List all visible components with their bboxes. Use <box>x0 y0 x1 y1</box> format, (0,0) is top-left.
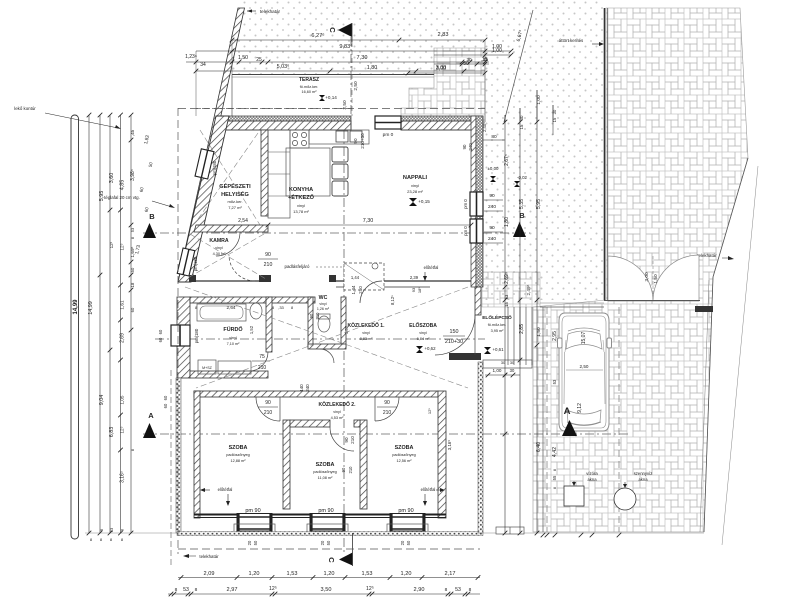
svg-text:90: 90 <box>384 400 390 406</box>
svg-text:szennyvíz: szennyvíz <box>634 471 653 476</box>
bottom small steps <box>496 527 524 534</box>
svg-text:vízóra: vízóra <box>586 471 598 476</box>
chairs <box>332 147 348 162</box>
svg-text:+0,62: +0,62 <box>424 346 436 351</box>
fence south crosshatch <box>177 532 483 536</box>
svg-text:1,52: 1,52 <box>249 325 254 334</box>
level +0,15 <box>409 198 430 206</box>
svg-text:8: 8 <box>272 306 274 310</box>
wall furdo south <box>190 371 268 378</box>
svg-text:53: 53 <box>130 227 135 232</box>
svg-text:vinyl: vinyl <box>297 203 305 208</box>
svg-text:90: 90 <box>309 313 314 318</box>
svg-text:12⁵: 12⁵ <box>427 408 432 414</box>
svg-text:15: 15 <box>519 124 524 129</box>
svg-text:50: 50 <box>253 540 258 545</box>
room NAPPALI <box>403 175 428 194</box>
paving bottom edge ticks <box>483 532 704 534</box>
window pm180 in slant wall lower (kamra) <box>177 248 195 276</box>
svg-text:8: 8 <box>195 587 198 593</box>
fence east crosshatch <box>478 362 483 533</box>
svg-text:80: 80 <box>491 134 497 140</box>
terrace outline <box>232 74 434 76</box>
svg-text:9,04: 9,04 <box>99 395 105 406</box>
door kamra arc <box>229 255 255 281</box>
svg-text:1,80: 1,80 <box>504 217 510 227</box>
washbasin furdo <box>250 303 262 319</box>
svg-text:3,00: 3,00 <box>644 272 650 282</box>
svg-text:9,12: 9,12 <box>577 403 583 413</box>
svg-text:±0,00: ±0,00 <box>488 166 500 171</box>
svg-text:2,95: 2,95 <box>552 331 558 341</box>
svg-text:1,23⁶: 1,23⁶ <box>185 54 197 60</box>
svg-text:3,98⁵: 3,98⁵ <box>130 169 136 181</box>
svg-text:2,64: 2,64 <box>227 305 236 310</box>
attic access hatch <box>344 263 384 290</box>
svg-text:8: 8 <box>469 587 472 593</box>
svg-text:3,16⁵: 3,16⁵ <box>120 471 126 483</box>
svg-text:4,42: 4,42 <box>552 447 558 457</box>
svg-text:+0,61: +0,61 <box>492 347 504 352</box>
svg-text:8: 8 <box>175 587 178 593</box>
svg-text:2,49⁵: 2,49⁵ <box>526 284 531 295</box>
stipple ground top band <box>229 0 485 74</box>
svg-text:3,95 m²: 3,95 m² <box>491 329 505 333</box>
windows pm0 in east wall <box>470 192 483 243</box>
svg-text:padlószőnyeg: padlószőnyeg <box>392 453 415 457</box>
svg-text:240: 240 <box>488 236 496 242</box>
svg-text:18⁵: 18⁵ <box>417 287 422 293</box>
entry door arc <box>435 315 475 355</box>
label padlasfeljaro <box>285 264 342 269</box>
svg-text:6,83: 6,83 <box>109 427 115 438</box>
svg-text:240: 240 <box>488 204 496 210</box>
svg-text:8: 8 <box>553 487 557 489</box>
svg-text:2,69⁵: 2,69⁵ <box>504 272 510 284</box>
svg-text:8: 8 <box>121 529 125 531</box>
svg-text:8: 8 <box>131 449 135 451</box>
vizora akna (water meter) <box>564 471 598 506</box>
svg-text:8,12⁵: 8,12⁵ <box>390 295 395 305</box>
svg-text:SZOBA: SZOBA <box>395 445 414 451</box>
right wall dims 80 90 240 <box>483 134 505 140</box>
svg-text:90: 90 <box>489 225 495 231</box>
door szoba right arc <box>375 397 399 421</box>
svg-text:A: A <box>148 411 154 420</box>
svg-text:210: 210 <box>258 365 267 371</box>
room FURDO <box>223 326 242 346</box>
svg-text:vinyl: vinyl <box>362 331 370 335</box>
svg-text:60: 60 <box>163 403 168 408</box>
svg-text:fö.mőz.ker.: fö.mőz.ker. <box>488 323 507 327</box>
room ELOLEPCSO <box>482 313 512 333</box>
left dim capsule <box>71 115 79 539</box>
svg-text:150: 150 <box>450 329 459 335</box>
svg-text:55: 55 <box>552 475 557 480</box>
telekhatar dashed bottom <box>178 549 480 559</box>
svg-text:+0,15: +0,15 <box>418 199 430 204</box>
wall west middle section <box>177 297 190 378</box>
levels near east wall <box>488 166 500 182</box>
svg-text:34: 34 <box>200 62 206 68</box>
svg-text:3,16⁵: 3,16⁵ <box>447 440 452 451</box>
svg-text:pm 0: pm 0 <box>383 132 394 138</box>
dim connectors vertical <box>231 40 233 75</box>
svg-text:12⁵: 12⁵ <box>269 586 277 592</box>
svg-text:210: 210 <box>348 466 353 474</box>
svg-text:téglafal 20 cm vtg.: téglafal 20 cm vtg. <box>104 195 140 200</box>
svg-text:TERASZ: TERASZ <box>299 77 319 83</box>
svg-text:8: 8 <box>291 306 293 310</box>
svg-text:1,69⁵: 1,69⁵ <box>130 246 135 257</box>
svg-text:8,83 m²: 8,83 m² <box>360 337 374 341</box>
door kozlekedo1 arc <box>360 281 382 303</box>
dining table <box>286 148 330 196</box>
neighbour boundary diagonal top right <box>504 10 533 122</box>
brick paving entry landing <box>482 272 540 307</box>
dashed property rect left/bottom <box>177 108 179 554</box>
attort kerites label <box>559 38 604 46</box>
svg-text:210: 210 <box>264 262 273 268</box>
svg-text:telekhatár: telekhatár <box>697 253 717 258</box>
svg-text:12⁵: 12⁵ <box>120 426 125 433</box>
svg-text:2,40⁵: 2,40⁵ <box>482 122 487 132</box>
interior wall gepeszeti/kamra <box>194 225 268 232</box>
svg-text:1,52: 1,52 <box>344 325 349 334</box>
room KOZLEKEDO 1 <box>348 322 386 341</box>
fence line east of garden (attort kerites) <box>604 8 606 300</box>
room WC <box>317 295 330 311</box>
svg-text:padlószőnyeg: padlószőnyeg <box>226 453 249 457</box>
svg-text:240: 240 <box>468 143 473 151</box>
svg-text:12⁵: 12⁵ <box>109 241 114 248</box>
svg-text:8: 8 <box>553 469 557 471</box>
svg-text:lekő kontúr: lekő kontúr <box>14 106 36 111</box>
svg-text:11,08 m²: 11,08 m² <box>318 476 333 480</box>
wall south of upper section <box>189 275 471 287</box>
svg-text:6,84 m²: 6,84 m² <box>417 337 431 341</box>
svg-text:50: 50 <box>406 540 411 545</box>
svg-text:SZOBA: SZOBA <box>316 462 335 468</box>
svg-text:13,78 m²: 13,78 m² <box>293 209 309 214</box>
svg-text:pm 0: pm 0 <box>463 199 468 209</box>
svg-text:2,17: 2,17 <box>445 571 456 577</box>
svg-text:8: 8 <box>131 237 135 239</box>
svg-text:210: 210 <box>264 410 273 416</box>
door szoba middle arc <box>330 427 354 451</box>
room TERASZ label <box>299 77 319 94</box>
svg-text:telekhatár: telekhatár <box>199 554 219 559</box>
svg-text:20: 20 <box>247 540 252 545</box>
svg-text:1,00: 1,00 <box>492 48 502 54</box>
section marker C bottom <box>339 553 353 566</box>
right outer boundary diagonal <box>713 158 748 277</box>
wc toilet <box>318 316 330 332</box>
brick paving terrace corner <box>401 48 485 122</box>
svg-text:75: 75 <box>259 354 265 360</box>
svg-text:5,95: 5,95 <box>536 199 542 209</box>
svg-text:2,90: 2,90 <box>414 587 425 593</box>
entry steps (elolepcso treads) <box>483 307 532 368</box>
svg-text:30: 30 <box>510 368 515 373</box>
telekhatar label top <box>247 9 281 14</box>
svg-text:,45: ,45 <box>130 129 135 136</box>
washer M+SZ <box>198 360 216 374</box>
telekhatar label right <box>697 253 734 260</box>
svg-text:FÜRDŐ: FÜRDŐ <box>223 326 242 333</box>
dim row top 4 <box>194 64 485 73</box>
svg-text:53: 53 <box>504 294 509 299</box>
stove with burners <box>290 130 309 148</box>
svg-text:7,10 m²: 7,10 m² <box>227 342 241 346</box>
svg-text:+ÉTKEZŐ: +ÉTKEZŐ <box>288 193 315 201</box>
svg-text:8: 8 <box>445 587 448 593</box>
kitchen counter top <box>268 130 290 218</box>
svg-text:5,95: 5,95 <box>99 191 105 202</box>
svg-text:,15: ,15 <box>482 57 489 62</box>
svg-text:1,61: 1,61 <box>120 300 126 310</box>
svg-text:12,88 m²: 12,88 m² <box>231 459 247 463</box>
svg-text:90: 90 <box>341 467 346 472</box>
svg-text:1,50: 1,50 <box>653 274 659 284</box>
walls wc <box>308 297 313 347</box>
door szoba left arc <box>256 397 280 421</box>
svg-text:pm 90: pm 90 <box>398 508 413 514</box>
svg-text:vinyl: vinyl <box>319 302 326 306</box>
gate dashed lines <box>652 256 654 301</box>
room KONYHA <box>288 187 315 214</box>
car top view <box>558 313 612 431</box>
room ELOSZOBA <box>409 322 437 341</box>
svg-text:6,40: 6,40 <box>536 442 542 452</box>
svg-text:53: 53 <box>552 379 557 384</box>
svg-text:93: 93 <box>411 287 416 292</box>
wall top (north) with insulation <box>216 116 351 121</box>
svg-text:1,53: 1,53 <box>362 571 373 577</box>
svg-text:53: 53 <box>183 587 189 593</box>
szennyviz akna (sewage) <box>614 471 652 510</box>
svg-text:16,60 m²: 16,60 m² <box>302 90 318 94</box>
svg-text:1,50: 1,50 <box>536 327 542 337</box>
svg-text:+0,14: +0,14 <box>325 95 337 100</box>
svg-text:2,97: 2,97 <box>227 587 238 593</box>
level +0,61 <box>484 347 504 354</box>
svg-text:8: 8 <box>100 529 104 531</box>
internal dim 7,30 line <box>196 218 473 227</box>
svg-text:1,26 m²: 1,26 m² <box>317 307 330 311</box>
svg-text:210+30: 210+30 <box>360 133 365 149</box>
svg-text:90: 90 <box>462 144 467 149</box>
interior wall konyha/gepeszeti <box>261 130 268 216</box>
svg-text:előtétfal: előtétfal <box>218 487 233 492</box>
svg-text:4,53 m²: 4,53 m² <box>331 416 345 420</box>
dim row top 1 <box>230 32 488 42</box>
svg-text:25: 25 <box>256 57 262 63</box>
roof projection diagonals <box>185 287 468 388</box>
svg-text:53: 53 <box>109 527 114 532</box>
room KAMRA <box>209 238 229 256</box>
svg-text:12,56 m²: 12,56 m² <box>397 459 413 463</box>
furdo internal dims <box>195 305 293 310</box>
svg-text:padlószőnyeg: padlószőnyeg <box>313 470 336 474</box>
door furdo <box>249 352 268 371</box>
door gepeszeti arc <box>216 232 240 256</box>
section marker A left <box>143 423 156 438</box>
window pm0 in top wall <box>375 116 401 138</box>
svg-text:5,35: 5,35 <box>519 199 525 209</box>
svg-text:50: 50 <box>326 540 331 545</box>
svg-text:7,30: 7,30 <box>357 55 368 61</box>
svg-text:1,20: 1,20 <box>324 571 335 577</box>
leko kontur label <box>14 106 121 129</box>
svg-text:60: 60 <box>158 329 163 334</box>
svg-text:előtétfal: előtétfal <box>421 487 436 492</box>
section marker B left <box>143 223 156 238</box>
wall east bottom <box>438 391 446 518</box>
svg-text:1,20: 1,20 <box>249 571 260 577</box>
svg-text:23,28 m²: 23,28 m² <box>407 189 423 194</box>
svg-text:NAPPALI: NAPPALI <box>403 175 428 181</box>
svg-text:15,07: 15,07 <box>581 332 587 345</box>
svg-text:14,99: 14,99 <box>88 301 94 315</box>
svg-text:60: 60 <box>130 307 135 312</box>
level mark +0,14 <box>319 95 337 101</box>
svg-text:1,20: 1,20 <box>401 571 412 577</box>
svg-text:90: 90 <box>265 400 271 406</box>
svg-text:12⁵: 12⁵ <box>366 586 374 592</box>
svg-text:30: 30 <box>501 361 505 365</box>
wall south bottom <box>194 514 446 516</box>
section marker C top <box>338 23 352 37</box>
section marker B right <box>513 222 526 237</box>
windows pm90 south wall <box>234 508 275 533</box>
svg-text:akna: akna <box>587 477 597 482</box>
wall furdo north <box>190 297 315 303</box>
elotetfal labels <box>423 265 438 281</box>
svg-text:7,30: 7,30 <box>363 218 374 224</box>
svg-text:M+SZ: M+SZ <box>202 366 212 370</box>
svg-text:3,50: 3,50 <box>321 587 332 593</box>
stipple ground right strip <box>485 0 604 300</box>
svg-text:90: 90 <box>265 252 271 258</box>
svg-text:2,50: 2,50 <box>580 364 589 369</box>
svg-text:50: 50 <box>130 267 135 272</box>
svg-text:pm|180: pm|180 <box>193 256 198 271</box>
section line B horizontal <box>143 232 530 234</box>
svg-text:mőz.ker.: mőz.ker. <box>227 199 242 204</box>
svg-text:210: 210 <box>315 312 320 320</box>
svg-text:5,03⁶: 5,03⁶ <box>277 64 290 70</box>
svg-text:pm 90: pm 90 <box>245 508 260 514</box>
svg-text:SZOBA: SZOBA <box>229 445 248 451</box>
svg-text:pm 90: pm 90 <box>318 508 333 514</box>
gate arcs on north fence <box>608 255 699 301</box>
room GEPESZETI HELYISEG <box>219 182 251 210</box>
svg-text:14,99: 14,99 <box>73 299 79 315</box>
dim row top 3 <box>185 54 489 68</box>
svg-text:3,60: 3,60 <box>109 173 115 184</box>
svg-text:210: 210 <box>358 286 363 294</box>
svg-text:1,80: 1,80 <box>367 65 378 71</box>
svg-text:20: 20 <box>400 540 405 545</box>
svg-text:90: 90 <box>353 138 358 144</box>
dim row top 2 <box>196 43 513 53</box>
svg-text:vinyl: vinyl <box>333 410 341 414</box>
svg-text:3,00: 3,00 <box>436 66 446 72</box>
svg-text:2,39: 2,39 <box>410 275 419 280</box>
svg-text:1,50: 1,50 <box>238 55 248 61</box>
svg-text:1,05: 1,05 <box>120 395 125 404</box>
driveway dashed tracks <box>546 307 548 532</box>
room KOZLEKEDO 2 <box>319 401 357 420</box>
interior walls bottom rooms <box>283 420 290 509</box>
svg-text:140: 140 <box>299 384 304 392</box>
svg-text:210: 210 <box>383 410 392 416</box>
section marker A right <box>562 420 577 436</box>
svg-text:C: C <box>327 557 336 563</box>
svg-text:fö.mőz.ker.: fö.mőz.ker. <box>300 85 319 89</box>
svg-text:6,27⁶: 6,27⁶ <box>311 32 324 39</box>
svg-text:áttört kerítés: áttört kerítés <box>559 38 584 43</box>
right dim lines <box>504 115 506 533</box>
svg-text:30: 30 <box>510 361 514 365</box>
svg-text:1,44: 1,44 <box>351 285 356 294</box>
svg-text:2,69: 2,69 <box>120 333 126 343</box>
room SZOBA middle <box>313 462 336 480</box>
svg-text:210: 210 <box>350 436 355 444</box>
svg-text:18: 18 <box>130 282 135 287</box>
svg-text:,33: ,33 <box>278 305 284 310</box>
section line mid horizontal <box>155 338 485 340</box>
svg-text:akna: akna <box>638 477 648 482</box>
svg-text:KAMRA: KAMRA <box>209 238 229 244</box>
left dim lines <box>88 115 90 533</box>
svg-text:pm|180: pm|180 <box>212 160 217 175</box>
door wc arc <box>320 349 334 363</box>
room SZOBA left <box>226 445 249 463</box>
svg-text:pm 0: pm 0 <box>463 226 468 236</box>
svg-text:7,27 m²: 7,27 m² <box>228 205 242 210</box>
svg-text:20: 20 <box>320 540 325 545</box>
svg-text:1,44: 1,44 <box>351 275 360 280</box>
svg-text:1,53: 1,53 <box>287 571 298 577</box>
svg-text:1,00: 1,00 <box>493 368 502 373</box>
level +0,62 <box>416 346 436 353</box>
wall east of nappali <box>471 116 476 287</box>
property boundary slanted wall band (teglafal) <box>178 8 245 282</box>
right strip dim arrows <box>505 90 553 122</box>
furdo counter <box>218 361 251 374</box>
svg-text:2,67⁵: 2,67⁵ <box>504 154 510 166</box>
fence west crosshatch <box>176 378 181 533</box>
svg-text:B: B <box>149 212 155 221</box>
svg-text:8: 8 <box>195 306 197 310</box>
svg-text:telekhatár: telekhatár <box>260 9 281 14</box>
teglafal label <box>104 195 175 208</box>
wall west bottom <box>194 391 200 518</box>
svg-text:KÖZLEKEDŐ 1.: KÖZLEKEDŐ 1. <box>348 322 386 329</box>
window pm180 west (furdo) <box>171 325 190 346</box>
svg-text:9,83⁶: 9,83⁶ <box>339 43 352 50</box>
svg-text:2,83: 2,83 <box>438 32 449 38</box>
svg-text:53: 53 <box>455 587 461 593</box>
svg-text:2,50: 2,50 <box>353 81 359 91</box>
svg-text:2,09: 2,09 <box>204 571 215 577</box>
svg-text:vinyl: vinyl <box>419 331 427 335</box>
dim row bottom 2 <box>168 586 480 596</box>
svg-text:2,54: 2,54 <box>238 218 248 224</box>
svg-text:padlásfeljáró: padlásfeljáró <box>285 264 310 269</box>
